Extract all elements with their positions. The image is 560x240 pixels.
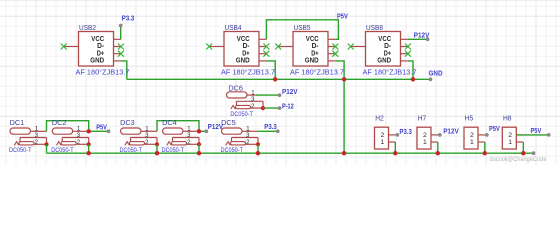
barrel of DC2 (52, 128, 72, 134)
svg-text:1: 1 (508, 139, 512, 146)
junction DC2 pin1 (87, 129, 91, 133)
svg-text:DC3: DC3 (120, 118, 135, 127)
wire USB8 VCC to P12V port (408, 38, 428, 40)
svg-text:AF 180°ZJB13.7: AF 180°ZJB13.7 (221, 69, 275, 77)
svg-text:P-12: P-12 (282, 103, 294, 110)
junction on bottom bus (521, 151, 525, 155)
no-connect X on D+ pin of USB2 (118, 51, 124, 57)
svg-text:P12V: P12V (443, 129, 459, 136)
tie pin3-pin2 of DC1 (46, 138, 48, 145)
svg-text:P3.3: P3.3 (399, 129, 412, 136)
tie pin3-pin2 of DC3 (156, 138, 158, 145)
lever of DC1 (19, 142, 34, 145)
spring contact of DC1 (14, 142, 19, 146)
pin 2 of H5 (478, 134, 485, 136)
svg-text:D+: D+ (242, 50, 249, 57)
svg-text:docooli@ChangeCode: docooli@ChangeCode (490, 156, 547, 163)
DC power jack DC4 (163, 127, 202, 147)
DC power jack DC6 (227, 91, 266, 111)
pin 2 of H7 (431, 134, 438, 136)
2-pin header H7 (417, 127, 438, 149)
DC power jack DC3 (121, 127, 160, 147)
svg-text:DC4: DC4 (162, 118, 177, 127)
net port P12V at DC4 (204, 129, 208, 133)
pin 1 tip of DC1 (31, 130, 47, 132)
junction on bottom bus (197, 151, 201, 155)
2-pin header H2 (375, 127, 396, 149)
junction on bottom bus (483, 151, 487, 155)
svg-text:P5V: P5V (337, 14, 348, 21)
USB connector USB2 (61, 32, 124, 67)
junction at pin2/3 of DC4 (197, 142, 201, 146)
junction DC4 pin1 (197, 129, 201, 133)
no-connect X on D+ pin of USB8 (405, 51, 411, 57)
pin 1 of H5 (478, 141, 485, 143)
junction on GND bus (273, 77, 277, 81)
left shield pin of USB4 (209, 46, 224, 48)
svg-text:DC050-T: DC050-T (51, 147, 73, 154)
wire H7 pin1 to bottom bus (437, 142, 439, 153)
pin 1 tip of DC2 (73, 130, 89, 132)
wire rail DC1 pin1 to DC2 pin1 (47, 121, 89, 132)
svg-text:USB2: USB2 (79, 23, 96, 32)
pin VCC of USB5 (328, 38, 335, 40)
pin GND of USB5 (328, 60, 335, 62)
lever of DC5 (231, 142, 246, 145)
pin VCC of USB8 (401, 38, 408, 40)
svg-text:2: 2 (381, 132, 385, 139)
svg-text:H7: H7 (418, 113, 427, 122)
pin 1 of H7 (431, 141, 438, 143)
pin 3 switch of DC4 (173, 137, 200, 139)
junction at pin2/3 of DC1 (44, 142, 48, 146)
pin 2 sleeve of DC5 (246, 143, 259, 145)
pin GND of USB4 (259, 60, 266, 62)
svg-text:P12V: P12V (208, 124, 224, 131)
pin 3 switch of DC1 (20, 137, 47, 139)
pin 3 switch of DC6 (237, 100, 264, 102)
pin GND of USB2 (114, 60, 121, 62)
pin 3 switch of DC3 (131, 137, 158, 139)
pin D+ of USB8 (401, 53, 408, 55)
2-pin header H5 (464, 127, 485, 149)
no-connect X on shield pin of USB4 (206, 44, 212, 50)
wire H5 pin2 to P5V port (485, 134, 487, 136)
junction on bottom bus (87, 151, 91, 155)
wire H2 pin2 to P3.3 port (395, 134, 397, 136)
svg-text:1: 1 (381, 139, 385, 146)
svg-text:1: 1 (470, 139, 474, 146)
pin GND of USB8 (401, 60, 408, 62)
barrel of DC5 (222, 128, 243, 134)
svg-text:GND: GND (305, 58, 319, 65)
junction on bottom bus (256, 151, 260, 155)
net port P5V at H8 (547, 133, 551, 137)
pin D- of USB4 (259, 46, 266, 48)
svg-text:2: 2 (423, 132, 427, 139)
net port P5V at DC2 (107, 129, 111, 133)
wire DC4 sleeve to bottom bus (198, 144, 200, 153)
wire USB2 GND to bus (121, 61, 127, 79)
wire H5 pin1 to bottom bus (484, 142, 486, 153)
lever of DC2 (61, 142, 76, 145)
svg-text:P5V: P5V (531, 128, 542, 135)
svg-text:VCC: VCC (91, 36, 104, 43)
svg-text:P5V: P5V (96, 124, 107, 131)
svg-text:D-: D- (97, 43, 105, 50)
tie pin3-pin2 of DC6 (262, 101, 264, 108)
pin D- of USB2 (114, 46, 121, 48)
lever of DC6 (236, 105, 251, 108)
barrel of DC1 (10, 128, 31, 134)
wire USB8 GND to bus (408, 61, 413, 79)
wire DC5 sleeve to bottom bus (257, 144, 259, 153)
pin D- of USB5 (328, 46, 335, 48)
svg-text:GND: GND (377, 58, 391, 65)
no-connect X on D- pin of USB8 (405, 44, 411, 50)
wire P5V rail USB4 VCC to USB5 VCC (266, 20, 338, 40)
no-connect X on shield pin of USB5 (275, 44, 281, 50)
wire H7 pin2 to P12V port (438, 134, 440, 136)
spring contact of DC3 (125, 142, 130, 146)
lever of DC3 (130, 142, 145, 145)
net port P12V at H7 (438, 133, 442, 137)
junction on bottom bus (155, 151, 159, 155)
svg-text:VCC: VCC (378, 36, 391, 43)
lever of DC4 (172, 142, 187, 145)
svg-text:AF 180°ZJB13.7: AF 180°ZJB13.7 (290, 69, 344, 77)
junction at pin2/3 of DC3 (155, 142, 159, 146)
svg-text:D+: D+ (97, 50, 104, 57)
svg-text:P5V: P5V (489, 126, 500, 133)
svg-text:D+: D+ (384, 50, 391, 57)
no-connect X on D- pin of USB2 (118, 44, 124, 50)
wire DC5 pin1 to P3.3 port (258, 130, 278, 132)
net port GND at top bus (429, 77, 433, 81)
wire DC6 sleeve to P-12 port (263, 107, 280, 109)
svg-text:H2: H2 (375, 113, 384, 122)
svg-text:H5: H5 (465, 113, 474, 122)
svg-text:DC050-T: DC050-T (162, 147, 185, 154)
net port P12V at DC6 (278, 93, 282, 97)
tie pin3-pin2 of DC5 (257, 138, 259, 145)
DC power jack DC1 (10, 127, 49, 147)
tie pin3-pin2 of DC4 (198, 138, 200, 145)
pin 1 of H2 (389, 141, 396, 143)
pin 2 sleeve of DC1 (34, 143, 47, 145)
net port P5V at H5 (485, 133, 489, 137)
pin D- of USB8 (401, 46, 408, 48)
svg-text:GND: GND (90, 58, 104, 65)
pin D+ of USB5 (328, 53, 335, 55)
svg-text:DC050-T: DC050-T (221, 147, 244, 154)
pin 2 of H8 (516, 134, 523, 136)
junction on bottom bus (393, 151, 397, 155)
pin 1 tip of DC5 (242, 130, 258, 132)
svg-text:DC6: DC6 (228, 83, 243, 92)
wire USB5 GND down to bottom bus (336, 61, 345, 153)
svg-text:AF 180°ZJB13.7: AF 180°ZJB13.7 (363, 69, 417, 77)
no-connect X on D+ pin of USB4 (263, 51, 269, 57)
wire H2 pin1 to bottom bus (394, 142, 396, 153)
wire DC6 pin1 to P12V port (255, 94, 279, 96)
pin 2 sleeve of DC4 (187, 143, 200, 145)
pin 2 sleeve of DC3 (145, 143, 158, 145)
pin 1 tip of DC4 (183, 130, 199, 132)
left shield pin of USB5 (278, 46, 293, 48)
svg-text:D-: D- (312, 43, 320, 50)
junction at pin2/3 of DC2 (87, 142, 91, 146)
svg-text:2: 2 (470, 132, 474, 139)
junction on bottom bus (436, 151, 440, 155)
pin 1 of H8 (516, 141, 523, 143)
svg-text:GND: GND (236, 58, 250, 65)
svg-text:USB5: USB5 (294, 23, 311, 32)
wire DC3 sleeve to bottom bus (156, 144, 158, 153)
svg-text:DC050-T: DC050-T (9, 147, 32, 154)
net port P3.3 at H2 (395, 133, 399, 137)
USB connector USB8 (348, 32, 411, 67)
svg-text:DC1: DC1 (10, 118, 25, 127)
svg-text:USB4: USB4 (225, 23, 242, 32)
svg-text:DC2: DC2 (52, 118, 67, 127)
DC power jack DC5 (222, 127, 261, 147)
svg-text:2: 2 (508, 132, 512, 139)
left shield pin of USB8 (351, 46, 366, 48)
no-connect X on D+ pin of USB5 (332, 51, 338, 57)
svg-text:VCC: VCC (237, 36, 250, 43)
no-connect X on D- pin of USB4 (263, 44, 269, 50)
spring contact of DC5 (226, 142, 231, 146)
no-connect X on shield pin of USB8 (348, 44, 354, 50)
barrel of DC3 (121, 128, 142, 134)
no-connect X on D- pin of USB5 (332, 44, 338, 50)
svg-text:P12V: P12V (282, 89, 298, 96)
pin D+ of USB2 (114, 53, 121, 55)
pin VCC of USB2 (114, 38, 121, 40)
wire GND bottom bus (47, 152, 534, 154)
pin 2 sleeve of DC6 (251, 107, 264, 109)
wire GND top bus (127, 78, 431, 80)
pin 2 of H2 (389, 134, 396, 136)
svg-text:P12V: P12V (414, 33, 430, 40)
wire DC2 pin1 to P5V port (89, 130, 109, 132)
USB connector USB5 (275, 32, 338, 67)
junction on GND bus (342, 77, 346, 81)
pin VCC of USB4 (259, 38, 266, 40)
net port P3.3 at USB2 (119, 24, 123, 28)
USB connector USB4 (206, 32, 269, 67)
svg-text:AF 180°ZJB13.7: AF 180°ZJB13.7 (76, 69, 130, 77)
wire USB4 GND to bus (266, 61, 275, 79)
svg-text:P3.3: P3.3 (122, 15, 135, 22)
junction on GND bus (411, 77, 415, 81)
wire DC1 sleeve to bottom bus (46, 144, 48, 153)
pin 3 switch of DC2 (62, 137, 88, 139)
barrel of DC4 (163, 128, 184, 134)
net port P12V at USB8 (426, 37, 430, 41)
svg-text:1: 1 (423, 139, 427, 146)
svg-text:D-: D- (243, 43, 251, 50)
svg-text:DC050-T: DC050-T (120, 147, 143, 154)
net port at bottom bus end (532, 151, 536, 155)
wire DC2 sleeve to bottom bus (88, 144, 90, 153)
wire H8 pin2 to P5V port (516, 134, 548, 136)
wire rail DC3 pin1 to DC4 pin1 (157, 121, 199, 132)
barrel of DC6 (227, 92, 248, 98)
spring contact of DC4 (167, 142, 172, 146)
pin 2 sleeve of DC2 (76, 143, 89, 145)
spring contact of DC6 (231, 106, 236, 110)
wire H8 pin1 to bottom bus (522, 142, 524, 153)
svg-text:DC5: DC5 (221, 118, 236, 127)
pin 1 tip of DC6 (247, 94, 255, 96)
no-connect X on shield pin of USB2 (61, 44, 67, 50)
svg-text:VCC: VCC (306, 36, 319, 43)
pin 3 switch of DC5 (232, 137, 259, 139)
svg-text:DC050-T: DC050-T (230, 111, 253, 118)
svg-text:D+: D+ (311, 50, 318, 57)
left shield pin of USB2 (64, 46, 79, 48)
junction on bottom bus (342, 151, 346, 155)
net port P3.3 at DC5 (276, 129, 280, 133)
svg-text:H8: H8 (503, 113, 512, 122)
junction at pin2/3 of DC5 (256, 142, 260, 146)
pin D+ of USB4 (259, 53, 266, 55)
tie pin3-pin2 of DC2 (88, 138, 90, 145)
spring contact of DC2 (57, 142, 62, 146)
svg-text:D-: D- (384, 43, 392, 50)
junction at pin2/3 of DC6 (261, 106, 265, 110)
svg-text:GND: GND (429, 70, 443, 77)
wire USB2 VCC to P3.3 port (120, 26, 122, 40)
net port P-12 at DC6 (278, 106, 282, 110)
svg-text:USB8: USB8 (366, 23, 383, 32)
wire DC4 pin1 to P12V port (199, 130, 206, 132)
pin 1 tip of DC3 (141, 130, 157, 132)
2-pin header H8 (502, 127, 523, 149)
svg-text:P3.3: P3.3 (264, 124, 277, 131)
DC power jack DC2 (52, 127, 91, 147)
